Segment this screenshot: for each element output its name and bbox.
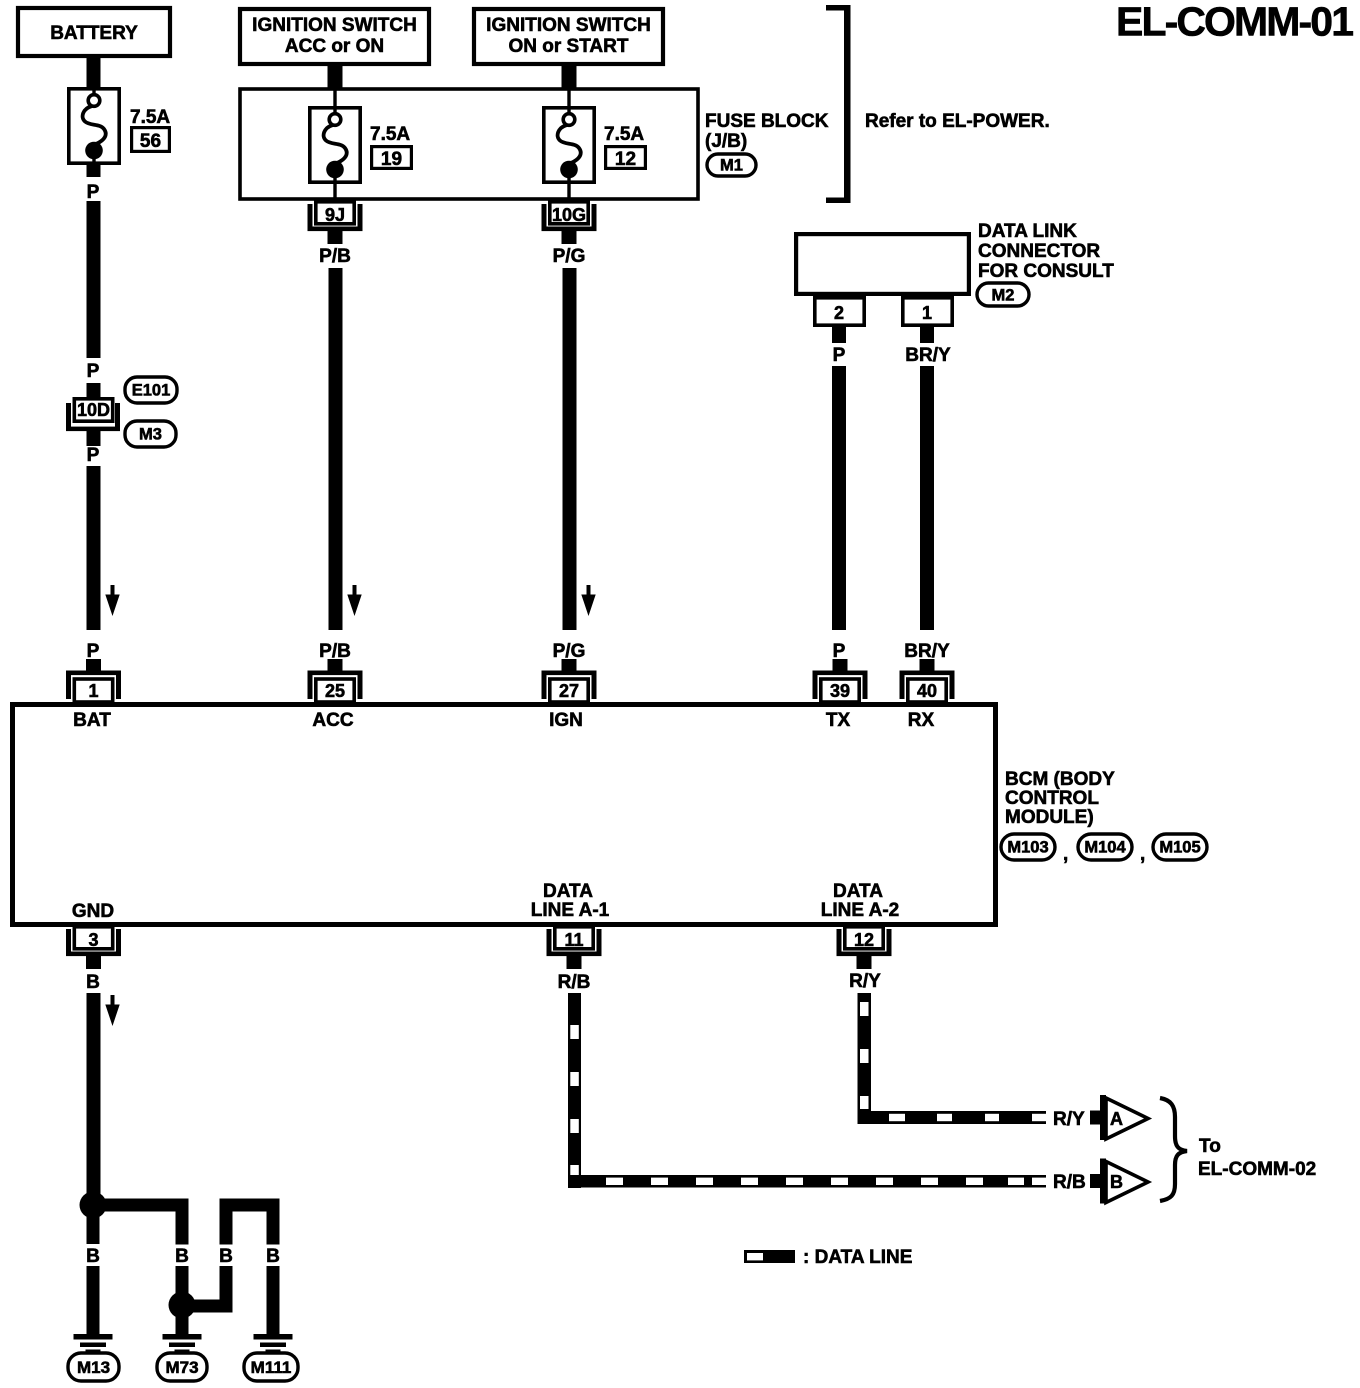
label BCM (BODY CONTROL MODULE) — [1005, 769, 1115, 828]
svg-text:To: To — [1199, 1136, 1221, 1157]
arrow down on P/G wire — [581, 585, 595, 616]
svg-text:10D: 10D — [77, 400, 110, 420]
data line dashes on R/Y horizontal — [889, 1114, 1047, 1121]
wire ignition ON-START to fuse block — [562, 64, 577, 90]
svg-text:39: 39 — [830, 681, 850, 701]
fuse 7.5A number 12 — [544, 107, 594, 182]
BCM terminal 12 — [837, 927, 892, 969]
DLC pin 2 box — [815, 298, 864, 325]
ground symbol M111 — [254, 1334, 293, 1353]
BCM terminal 27 — [542, 659, 597, 702]
wire P vertical segment to BCM — [87, 466, 101, 630]
svg-text:R/Y: R/Y — [1053, 1109, 1085, 1130]
svg-text:M2: M2 — [992, 287, 1015, 305]
wire R/Y data line vertical — [858, 993, 872, 1124]
svg-text:LINE A-2: LINE A-2 — [821, 900, 899, 921]
svg-text:1: 1 — [88, 681, 98, 701]
svg-text:40: 40 — [917, 681, 937, 701]
svg-text:R/B: R/B — [1053, 1172, 1086, 1193]
wire stub below pin 2 — [832, 327, 846, 343]
svg-text:DATA: DATA — [543, 881, 593, 902]
svg-text:A: A — [1110, 1109, 1123, 1129]
connector 10G at fuse block — [542, 202, 597, 244]
ground ref oval M13 — [68, 1353, 119, 1381]
wire B segment above M13 ground — [87, 1266, 100, 1335]
note To EL-COMM-02 — [1198, 1136, 1316, 1180]
wire stub below pin 1 — [920, 327, 934, 343]
wire B vertical segment from GND — [87, 993, 101, 1206]
wire B horizontal branch — [93, 1199, 189, 1212]
svg-text:DATA: DATA — [833, 881, 883, 902]
svg-text:,: , — [1140, 844, 1145, 865]
off-page arrow B — [1100, 1159, 1148, 1204]
wire P/B vertical segment — [329, 268, 343, 630]
fuse 7.5A number 19 — [310, 107, 360, 182]
pin name DATA LINE A-1 — [531, 881, 610, 921]
ground symbol M73 — [163, 1334, 202, 1353]
wire stub below connector 10D — [87, 431, 101, 446]
data line dashes on R/B vertical — [570, 1025, 579, 1179]
svg-text:,: , — [1063, 844, 1068, 865]
pin name DATA LINE A-2 — [821, 881, 899, 921]
svg-text:P: P — [87, 182, 100, 203]
svg-text:Refer to EL-POWER.: Refer to EL-POWER. — [865, 111, 1050, 132]
fuse number box 19 — [372, 147, 412, 170]
svg-text:DATA LINK: DATA LINK — [978, 221, 1077, 242]
svg-text:M73: M73 — [165, 1358, 198, 1377]
wire into fuse 12 — [567, 89, 570, 108]
wire B loop bottom horizontal to junction — [182, 1300, 233, 1313]
svg-text:P/B: P/B — [319, 641, 351, 662]
svg-text:2: 2 — [834, 303, 844, 323]
BCM terminal 25 — [308, 659, 363, 702]
wire B segment to M13 ground — [87, 1212, 100, 1244]
arrow down on P wire — [105, 585, 119, 616]
svg-text:12: 12 — [854, 930, 874, 950]
svg-text:P: P — [87, 445, 100, 466]
label DATA LINK CONNECTOR FOR CONSULT — [978, 221, 1114, 282]
svg-text:B: B — [1110, 1172, 1123, 1192]
off-page arrow A — [1100, 1095, 1148, 1140]
arrow down on P/B wire — [347, 585, 361, 616]
wire P vertical segment (TX) — [832, 366, 846, 630]
svg-text:GND: GND — [72, 901, 114, 922]
svg-text:(J/B): (J/B) — [705, 131, 747, 152]
BCM terminal 1 — [66, 659, 121, 702]
bracket right of fuse block — [826, 5, 851, 203]
wire P/G vertical segment — [563, 268, 577, 630]
svg-text:7.5A: 7.5A — [130, 107, 170, 128]
svg-text:P: P — [87, 641, 100, 662]
svg-text:MODULE): MODULE) — [1005, 807, 1094, 828]
svg-text:7.5A: 7.5A — [370, 124, 410, 145]
svg-text:E101: E101 — [132, 382, 171, 400]
battery box — [18, 8, 170, 56]
svg-text:3: 3 — [88, 930, 98, 950]
svg-text:7.5A: 7.5A — [604, 124, 644, 145]
wire BR/Y vertical segment (RX) — [920, 366, 934, 630]
data line dashes on R/B horizontal — [606, 1178, 1047, 1185]
svg-text:M13: M13 — [77, 1358, 110, 1377]
BCM terminal 3 — [66, 927, 121, 969]
wire P vertical segment — [87, 201, 101, 358]
svg-text:P: P — [833, 641, 846, 662]
svg-text:: DATA LINE: : DATA LINE — [803, 1247, 912, 1268]
wire B loop right leg — [267, 1199, 280, 1245]
svg-text:M1: M1 — [720, 157, 743, 175]
fuse number box 12 — [606, 147, 646, 170]
svg-text:10G: 10G — [552, 205, 586, 225]
wire B loop left leg — [220, 1199, 233, 1245]
svg-text:9J: 9J — [325, 205, 345, 225]
svg-text:B: B — [86, 972, 100, 993]
svg-text:TX: TX — [826, 710, 851, 731]
BCM body control module box — [13, 705, 996, 925]
svg-text:11: 11 — [564, 930, 583, 950]
svg-text:B: B — [219, 1246, 233, 1267]
wire ignition ACC to fuse block — [328, 64, 343, 90]
svg-text:BATTERY: BATTERY — [50, 23, 138, 44]
svg-text:19: 19 — [381, 149, 402, 170]
svg-text:B: B — [266, 1246, 280, 1267]
BCM terminal 40 — [900, 659, 955, 702]
wire fuse 12 to block edge — [567, 183, 570, 201]
svg-text:RX: RX — [908, 710, 935, 731]
wire B segment above M111 ground — [267, 1266, 280, 1335]
svg-text:FOR CONSULT: FOR CONSULT — [978, 261, 1114, 282]
fusible link 7.5A (battery) — [69, 88, 119, 163]
svg-text:IGN: IGN — [549, 710, 583, 731]
arrow down on B wire — [105, 995, 119, 1026]
ignition switch ACC or ON box — [240, 9, 429, 64]
connector ref oval E101 — [125, 377, 177, 403]
data link connector box — [796, 234, 969, 294]
ground ref oval M111 — [244, 1353, 298, 1381]
connector ref oval M104 — [1078, 834, 1132, 860]
svg-text:1: 1 — [922, 303, 932, 323]
svg-text:P/G: P/G — [553, 246, 586, 267]
svg-text:M3: M3 — [139, 426, 162, 444]
svg-text:FUSE BLOCK: FUSE BLOCK — [705, 111, 829, 132]
data line dashes on R/Y vertical — [860, 1002, 869, 1109]
connector ref oval M2 — [977, 283, 1029, 306]
connector ref oval M103 — [1001, 834, 1055, 860]
svg-text:ON or START: ON or START — [509, 36, 629, 57]
connector ref oval M1 — [707, 154, 756, 176]
wire stub into arrow B — [1090, 1174, 1102, 1188]
wire stub below fusible link — [87, 164, 101, 177]
junction dot B branch — [169, 1292, 196, 1319]
connector 9J at fuse block — [308, 202, 363, 244]
junction dot B wire — [80, 1192, 107, 1219]
wire fuse 19 to block edge — [333, 183, 336, 201]
svg-text:M104: M104 — [1084, 839, 1126, 857]
wire B segment above M73 ground — [176, 1305, 189, 1335]
svg-text:CONNECTOR: CONNECTOR — [978, 241, 1100, 262]
BCM terminal 11 — [547, 927, 602, 969]
svg-text:LINE A-1: LINE A-1 — [531, 900, 610, 921]
wire stub into arrow A — [1090, 1111, 1102, 1125]
ground ref oval M73 — [157, 1353, 207, 1381]
svg-text:B: B — [86, 1246, 100, 1267]
svg-text:IGNITION SWITCH: IGNITION SWITCH — [252, 15, 417, 36]
svg-text:ACC: ACC — [312, 710, 353, 731]
svg-text:P/G: P/G — [553, 641, 586, 662]
svg-text:M103: M103 — [1007, 839, 1048, 857]
wire into fuse 19 — [333, 89, 336, 108]
wire B segment to junction — [176, 1266, 189, 1306]
wire B loop top horizontal — [220, 1199, 280, 1212]
svg-text:P: P — [87, 361, 100, 382]
connector ref oval M3 — [125, 421, 176, 447]
wire B loop left leg lower — [220, 1266, 233, 1300]
fuse block J/B box — [240, 89, 698, 199]
DLC pin 1 box — [903, 298, 952, 325]
svg-text:BR/Y: BR/Y — [904, 641, 950, 662]
BCM terminal 39 — [813, 659, 868, 702]
svg-text:EL-COMM-01: EL-COMM-01 — [1116, 0, 1354, 45]
wire stub above connector 10D — [87, 383, 101, 398]
wire R/Y data line horizontal — [858, 1111, 1047, 1124]
svg-text:BCM (BODY: BCM (BODY — [1005, 769, 1115, 790]
svg-text:25: 25 — [325, 681, 345, 701]
connector ref oval M105 — [1153, 834, 1207, 860]
svg-text:BR/Y: BR/Y — [905, 345, 951, 366]
svg-text:P: P — [833, 345, 846, 366]
svg-text:R/B: R/B — [558, 972, 591, 993]
svg-text:12: 12 — [615, 149, 636, 170]
svg-text:R/Y: R/Y — [849, 971, 881, 992]
svg-text:56: 56 — [140, 131, 161, 152]
ground symbol M13 — [74, 1334, 113, 1353]
svg-text:B: B — [175, 1246, 189, 1267]
svg-text:M111: M111 — [251, 1358, 292, 1377]
ignition switch ON or START box — [474, 9, 663, 64]
svg-text:M105: M105 — [1159, 839, 1200, 857]
brace to EL-COMM-02 — [1160, 1098, 1187, 1201]
svg-text:CONTROL: CONTROL — [1005, 788, 1099, 809]
wire R/B data line vertical — [568, 993, 581, 1188]
svg-text:P/B: P/B — [319, 246, 351, 267]
svg-text:27: 27 — [559, 681, 579, 701]
svg-text:IGNITION SWITCH: IGNITION SWITCH — [486, 15, 651, 36]
wire B corner segment down — [176, 1199, 189, 1245]
svg-text:EL-COMM-02: EL-COMM-02 — [1198, 1159, 1316, 1180]
svg-text:ACC or ON: ACC or ON — [285, 36, 384, 57]
in-line connector 10D — [66, 399, 120, 431]
legend data line symbol — [744, 1250, 795, 1263]
svg-text:BAT: BAT — [73, 710, 111, 731]
fuse number box 56 — [132, 128, 170, 152]
wire R/B data line horizontal — [568, 1175, 1046, 1188]
wire battery to fusible link — [87, 56, 101, 88]
